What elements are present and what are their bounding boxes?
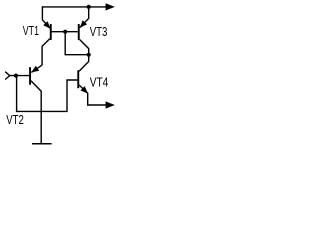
wire: base bus VT1 to VT3 [52,31,78,33]
transistor VT2 (PNP) [29,65,42,143]
VT3 emitter arrow [80,20,87,28]
VT2 emitter wire from VT1 collector [31,65,42,72]
transistor VT3 (PNP) [78,7,89,55]
wire: output from VT4 emitter [88,93,107,105]
VT4 emitter arrow [81,86,89,93]
power arrow (top right, +V) [106,3,115,10]
wire: input node down, right and up to VT4 base [17,76,78,112]
node dot: base junction [63,30,67,34]
VT2 collector wire down to ground [31,81,41,144]
ground [32,143,52,145]
VT4 emitter wire [79,85,88,94]
wire: VT1 emitter from top rail [42,6,50,29]
node dot: mirror node (VT3 collector / VT4 collector) [87,53,91,57]
VT1 collector wire down to VT2 emitter [42,39,50,66]
VT4 base bar [77,70,79,88]
svg-text:VT1: VT1 [23,24,39,38]
output arrow (right) [106,101,115,108]
wire: base junction down and right to mirror node [65,32,89,55]
VT1 base bar [50,24,52,40]
svg-text:VT4: VT4 [90,75,109,89]
VT1 emitter arrow [43,21,50,29]
svg-text:VT2: VT2 [6,113,24,127]
VT2 base bar [29,67,31,85]
wire: positive supply top rail [42,6,107,8]
transistor VT1 (PNP) [42,21,52,65]
wire: input to VT2 base [10,75,29,77]
svg-text:VT3: VT3 [90,25,108,39]
node dot on top rail (VT3 emitter junction) [87,5,91,9]
transistor VT4 (NPN) [77,55,88,94]
VT4 collector wire from mirror node [79,55,89,72]
VT3 emitter wire from top rail [80,7,89,28]
VT2 emitter arrow [31,66,39,73]
node dot: input node [14,74,18,78]
VT3 base bar [78,24,80,40]
VT3 collector wire to mirror node [80,40,89,55]
input arrow (left) [5,72,10,80]
